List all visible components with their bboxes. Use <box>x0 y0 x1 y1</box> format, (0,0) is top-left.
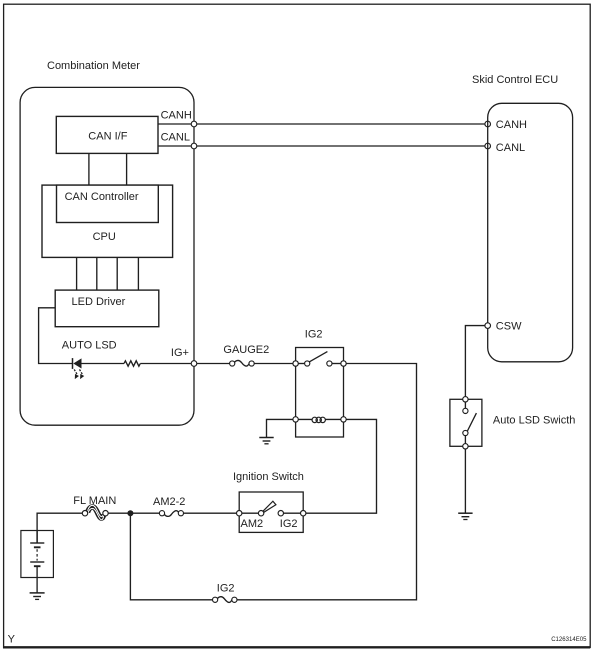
svg-text:LED Driver: LED Driver <box>72 296 126 308</box>
svg-text:Ignition Switch: Ignition Switch <box>233 471 304 483</box>
svg-text:GAUGE2: GAUGE2 <box>223 344 269 356</box>
wire resistor to IG+ <box>140 363 194 365</box>
wires CPU to LED Driver <box>77 257 139 290</box>
svg-text:CAN Controller: CAN Controller <box>65 191 139 203</box>
relay IG2 coil <box>296 417 344 422</box>
skid control ECU block <box>488 103 573 362</box>
resistor <box>124 361 140 366</box>
CAN Controller block <box>57 185 159 222</box>
fuse IG2 bottom <box>213 597 237 603</box>
combination meter enclosure <box>20 87 194 425</box>
svg-text:CANH: CANH <box>161 110 192 122</box>
svg-text:CPU: CPU <box>93 231 116 243</box>
svg-text:Skid Control ECU: Skid Control ECU <box>472 74 558 86</box>
wire CANH <box>158 123 488 125</box>
wire CSW to auto LSD switch <box>465 326 485 397</box>
wire LED to resistor <box>82 363 125 365</box>
wire GAUGE2 to relay IG2 <box>254 363 293 365</box>
fuse AM2-2 <box>159 511 183 517</box>
relay IG2 terminal switch left <box>293 361 298 366</box>
svg-text:IG2: IG2 <box>305 328 323 340</box>
wire CAN I/F to CAN Controller (left) <box>88 153 90 185</box>
wire IG+ to fuse GAUGE2 <box>197 363 230 365</box>
wire junction to AM2-2 <box>130 512 159 514</box>
svg-text:C126314E05: C126314E05 <box>551 637 587 643</box>
label C126314E05 <box>551 637 587 643</box>
LED Driver block <box>55 290 159 327</box>
fuse GAUGE2 <box>230 360 255 366</box>
svg-text:Auto LSD Swicth: Auto LSD Swicth <box>493 415 576 427</box>
ignition switch IG2 contact <box>278 511 300 516</box>
wire LED Driver to LED <box>39 308 73 364</box>
wire CAN I/F to CAN Controller (right) <box>126 153 128 185</box>
CPU block <box>42 185 173 257</box>
svg-text:AM2: AM2 <box>241 518 264 530</box>
svg-text:IG2: IG2 <box>217 582 235 594</box>
junction node <box>127 510 133 516</box>
relay IG2 terminal coil left <box>293 417 298 422</box>
relay IG2 box <box>296 348 344 438</box>
ignition switch terminal right <box>301 511 306 516</box>
svg-text:Y: Y <box>8 634 16 646</box>
terminal CANL combination meter <box>191 143 197 149</box>
wire relay coil to ground <box>267 419 293 437</box>
LED AUTO LSD indicator <box>73 358 85 379</box>
relay IG2 terminal switch right <box>341 361 346 366</box>
CAN I/F block <box>56 116 158 153</box>
terminal IG+ <box>191 361 197 367</box>
svg-text:IG+: IG+ <box>171 347 189 359</box>
svg-text:CANL: CANL <box>496 142 525 154</box>
switch Auto LSD <box>450 397 482 449</box>
svg-text:Combination Meter: Combination Meter <box>47 60 140 72</box>
wire relay coil to ignition switch IG2 <box>306 419 377 513</box>
relay IG2 terminal coil right <box>341 417 346 422</box>
wire CANL <box>158 145 488 147</box>
wire FL MAIN to junction <box>108 512 130 514</box>
wire battery to ground <box>36 578 38 593</box>
ignition switch terminal left <box>237 511 242 516</box>
wire battery to FL MAIN <box>37 513 82 543</box>
ground relay coil <box>259 438 273 444</box>
wire IG2 fuse to junction <box>130 513 212 600</box>
terminal CANL skid control ECU <box>485 143 491 149</box>
svg-text:CANH: CANH <box>496 119 527 131</box>
wire relay switch to bottom IG2 fuse <box>237 364 417 600</box>
terminal CANH combination meter <box>191 121 197 127</box>
svg-text:IG2: IG2 <box>280 518 298 530</box>
ground battery <box>30 593 45 600</box>
svg-text:AM2-2: AM2-2 <box>153 496 185 508</box>
terminal CSW <box>485 323 491 329</box>
relay IG2 switch contact <box>296 352 344 367</box>
fusible link FL MAIN <box>82 505 108 519</box>
svg-text:CANL: CANL <box>161 132 190 144</box>
svg-text:AUTO LSD: AUTO LSD <box>62 339 117 351</box>
terminal CANH skid control ECU <box>485 121 491 127</box>
svg-text:CAN I/F: CAN I/F <box>88 131 127 143</box>
wire auto LSD switch to ground <box>464 449 466 513</box>
svg-text:CSW: CSW <box>496 321 522 333</box>
ignition switch block <box>239 492 303 532</box>
ignition switch AM2 contact <box>242 501 276 516</box>
battery <box>21 531 54 578</box>
ground auto LSD switch <box>458 513 472 519</box>
wire AM2-2 to ignition switch <box>184 512 237 514</box>
